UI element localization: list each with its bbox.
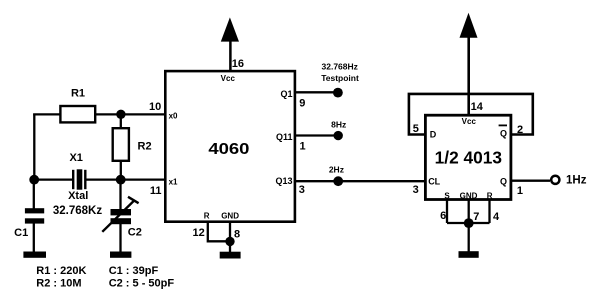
svg-text:Xtal: Xtal — [68, 190, 88, 202]
svg-text:3: 3 — [299, 184, 305, 196]
wire C1 top stub — [33, 184, 35, 209]
svg-text:8: 8 — [234, 228, 240, 240]
ground 4060 — [220, 252, 241, 259]
wire to ground 4013 — [468, 223, 470, 252]
wire R2 bottom stub — [120, 161, 122, 180]
node junction left crystal row — [29, 175, 39, 185]
svg-text:12: 12 — [193, 227, 205, 239]
testpoint terminal 32.768Hz — [333, 88, 343, 98]
svg-text:5: 5 — [413, 123, 419, 135]
node 2Hz testpoint — [333, 176, 343, 186]
svg-text:Q: Q — [500, 177, 507, 187]
wire crystal right to 4060 X1 pin — [87, 178, 166, 180]
svg-text:2Hz: 2Hz — [329, 164, 344, 174]
svg-text:11: 11 — [150, 185, 162, 197]
wire Q13 to 4013 CL — [296, 180, 426, 182]
svg-text:R2 : 10M: R2 : 10M — [36, 278, 81, 290]
svg-text:S: S — [444, 192, 450, 201]
svg-text:1: 1 — [300, 140, 306, 152]
svg-text:Q13: Q13 — [275, 176, 292, 186]
svg-text:7: 7 — [473, 211, 479, 223]
wire Vcc stem 4060 — [229, 40, 232, 71]
ground 4013 — [459, 251, 479, 258]
svg-text:32.768Hz: 32.768Hz — [322, 61, 358, 71]
svg-text:2: 2 — [517, 124, 523, 136]
resistor R2 — [113, 128, 129, 161]
svg-text:X1: X1 — [69, 152, 82, 164]
svg-text:1Hz: 1Hz — [566, 175, 587, 187]
node junction right crystal row — [116, 175, 126, 185]
svg-text:16: 16 — [232, 58, 244, 70]
wire C1 bottom stub — [33, 224, 35, 253]
node junction 4013 ground — [464, 218, 474, 228]
power arrow Vcc 4060 — [221, 17, 239, 41]
svg-text:10: 10 — [149, 101, 161, 113]
svg-text:Q11: Q11 — [276, 132, 293, 142]
crystal X1 — [72, 169, 87, 189]
wire crystal row left — [33, 178, 72, 180]
svg-text:32.768Kz: 32.768Kz — [53, 205, 102, 217]
svg-text:4: 4 — [493, 211, 500, 223]
overbar of Qbar — [499, 124, 507, 126]
ground C2 — [110, 252, 131, 258]
wire C2 bottom stub — [119, 224, 121, 252]
node junction pin8 ground — [225, 237, 234, 246]
wire bottom bus 4013 — [447, 222, 490, 224]
wire set/reset bracket 4013 pins 5-2 — [409, 94, 533, 135]
svg-text:x0: x0 — [169, 112, 178, 121]
svg-text:14: 14 — [471, 101, 484, 113]
wire C2 top stub — [119, 184, 121, 209]
svg-text:R1: R1 — [71, 88, 85, 100]
wire R pin 4 stub — [488, 200, 490, 224]
svg-text:3: 3 — [413, 184, 419, 196]
svg-text:Vcc: Vcc — [462, 117, 477, 126]
svg-text:6: 6 — [440, 210, 446, 222]
svg-text:C2 : 5 - 50pF: C2 : 5 - 50pF — [109, 278, 175, 290]
svg-text:R: R — [487, 192, 493, 201]
svg-text:Q1: Q1 — [280, 89, 292, 99]
wire reset pin 12 stub — [208, 222, 230, 241]
svg-text:C1: C1 — [14, 227, 28, 239]
terminal 1Hz open circle — [551, 176, 559, 184]
capacitor C2 trimmer — [111, 209, 132, 224]
svg-text:C1 : 39pF: C1 : 39pF — [109, 265, 159, 277]
wire R1 right to 4060 X0 pin — [96, 113, 166, 115]
svg-text:Q: Q — [500, 129, 507, 139]
wire Vcc stem 4013 — [467, 37, 470, 115]
IC U2 4013 box — [425, 115, 511, 199]
resistor R1 — [60, 106, 95, 122]
ground C1 — [23, 252, 46, 258]
svg-text:8Hz: 8Hz — [331, 119, 346, 129]
wire Q1 to testpoint — [296, 91, 339, 93]
svg-text:GND: GND — [460, 192, 478, 201]
svg-text:R1 : 220K: R1 : 220K — [36, 265, 86, 277]
wire Q11 to testpoint — [296, 134, 339, 136]
svg-text:D: D — [430, 130, 437, 140]
svg-text:R2: R2 — [138, 141, 152, 153]
svg-text:C2: C2 — [128, 226, 142, 238]
svg-text:R: R — [204, 212, 210, 221]
svg-text:x1: x1 — [169, 177, 178, 186]
wire GND pin 8 stub — [229, 222, 231, 252]
svg-text:Testpoint: Testpoint — [321, 73, 359, 83]
node junction X0/R1/R2 — [116, 110, 125, 119]
svg-text:1: 1 — [517, 185, 523, 197]
wire GND pin 7 stub — [468, 200, 470, 224]
svg-text:GND: GND — [221, 212, 239, 221]
capacitor C1 — [25, 208, 44, 223]
svg-text:9: 9 — [299, 97, 305, 109]
svg-text:4060: 4060 — [208, 140, 249, 158]
wire S pin 6 stub — [446, 200, 448, 224]
testpoint terminal 8Hz — [334, 131, 343, 140]
svg-text:CL: CL — [428, 177, 440, 187]
svg-text:Vcc: Vcc — [221, 74, 236, 83]
trimmer arrow C2 — [102, 197, 138, 232]
svg-text:1/2 4013: 1/2 4013 — [435, 147, 502, 167]
wire Q output to 1Hz terminal — [512, 180, 551, 182]
wire left vertical from R1 row to crystal row — [33, 114, 35, 181]
wire R1 row left segment — [33, 113, 60, 115]
wire R2 top stub — [120, 114, 122, 128]
power arrow Vcc 4013 — [460, 13, 478, 38]
IC U1 4060 box — [165, 71, 295, 222]
